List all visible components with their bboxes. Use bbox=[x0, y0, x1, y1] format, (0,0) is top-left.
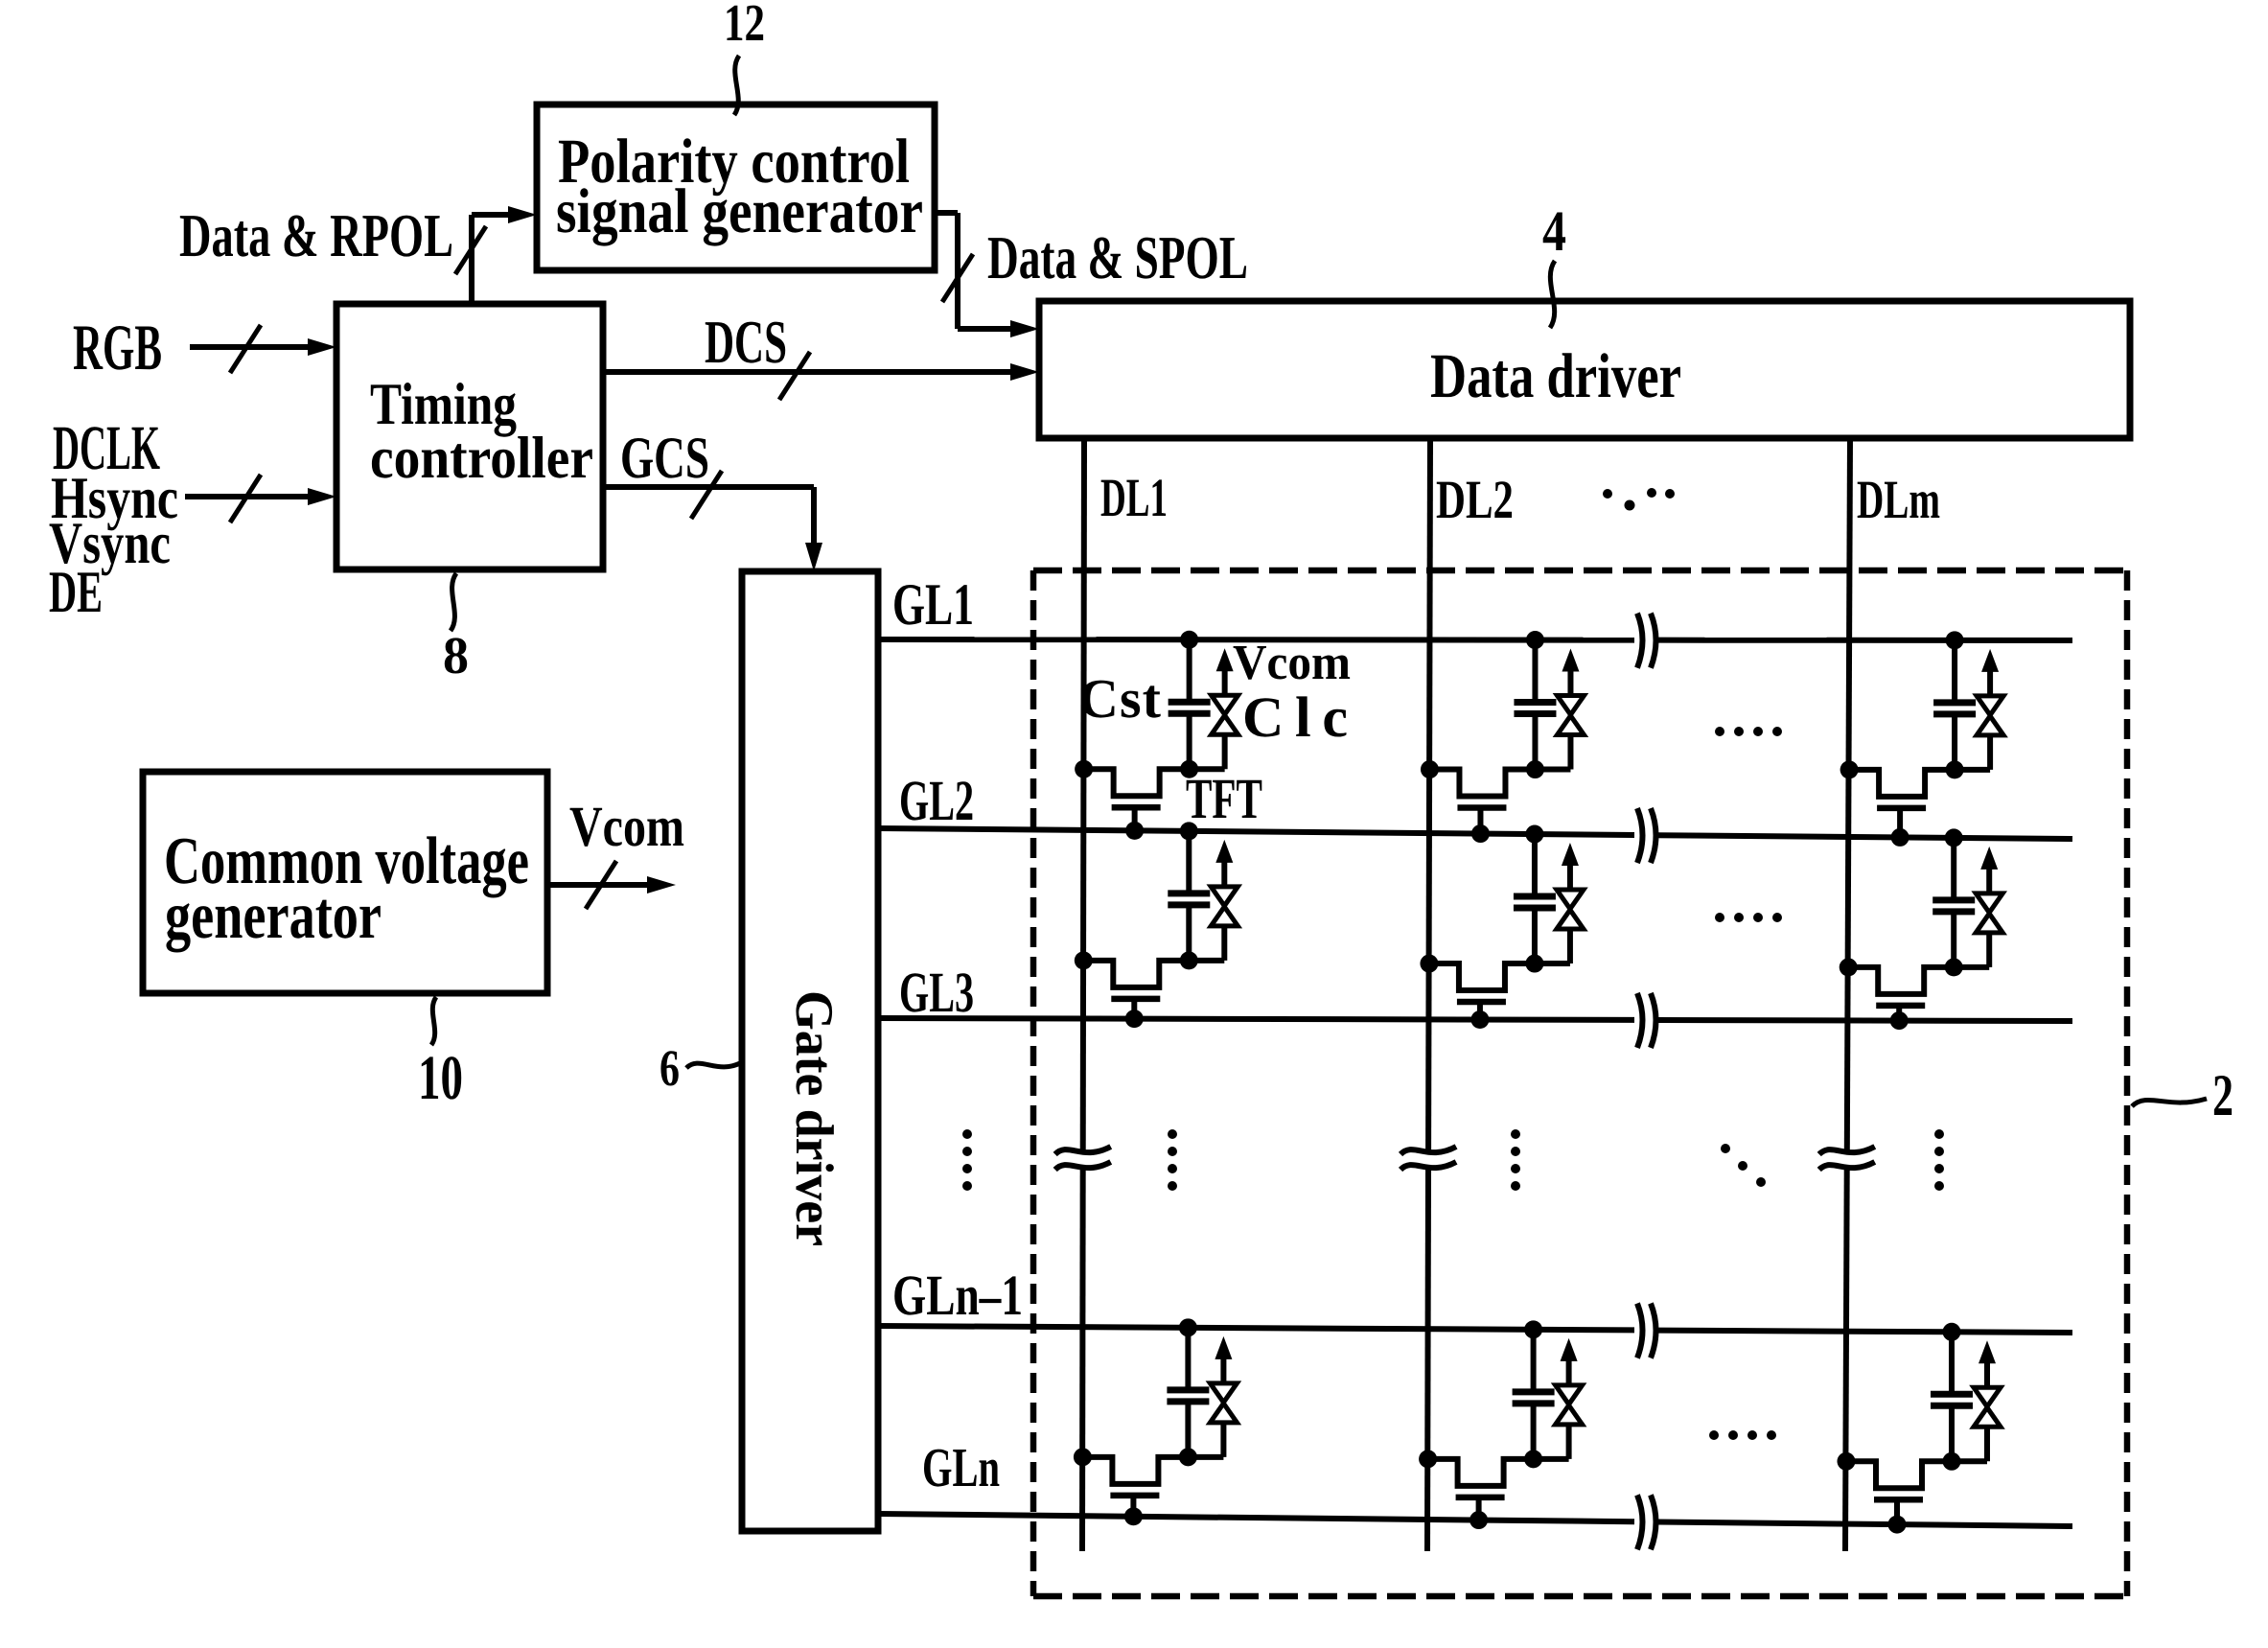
TFT gate lead RnC3 bbox=[1894, 1499, 1900, 1524]
node: Cst top on GLn1 bbox=[1942, 1323, 1960, 1341]
TFT gate bar R2C3 bbox=[1876, 1003, 1925, 1010]
node: TFT gate on GL2 bbox=[1891, 828, 1909, 847]
TFT gate lead R1C1 bbox=[1132, 807, 1138, 830]
node: TFT gate on GLn bbox=[1124, 1507, 1143, 1525]
node: TFT source on DL1 bbox=[1075, 760, 1093, 778]
wire: gate line GLn1 bbox=[878, 1326, 1634, 1330]
dashed LCD panel box (2) bbox=[1033, 568, 2127, 574]
Vcom arrow RnC2 bbox=[1561, 1338, 1578, 1361]
wire: data line DLm bbox=[1847, 438, 1850, 1149]
capacitor Clc (LC) RnC3 bbox=[1984, 1427, 1990, 1461]
TFT gate lead R1C3 bbox=[1897, 808, 1903, 838]
capacitor Cst plates R1C1 bbox=[1169, 699, 1211, 706]
svg-text:Vcom: Vcom bbox=[569, 795, 684, 858]
Vcom arrow R1C2 bbox=[1562, 649, 1579, 672]
wire Cst top lead R2C2 bbox=[1532, 834, 1538, 896]
node: Cst top on GL1 bbox=[1180, 631, 1198, 649]
TFT gate lead R2C1 bbox=[1131, 999, 1137, 1019]
svg-text:DE: DE bbox=[49, 560, 103, 625]
wire to Vcom R2C3 bbox=[1986, 868, 1992, 894]
node: Cst top on GL1 bbox=[1946, 631, 1964, 649]
node: TFT source on DL1 bbox=[1074, 1448, 1092, 1466]
svg-text:Clc: Clc bbox=[1242, 685, 1348, 749]
wire: data line DL1 bbox=[1083, 438, 1084, 1149]
capacitor Clc (LC) R1C3 bbox=[1987, 735, 1993, 770]
TFT gate bar RnC1 bbox=[1110, 1493, 1159, 1499]
Vcom arrow RnC1 bbox=[1215, 1336, 1232, 1359]
svg-text:12: 12 bbox=[724, 0, 765, 52]
wire to Vcom R2C1 bbox=[1221, 861, 1227, 887]
bus slash GCS bbox=[691, 471, 722, 519]
svg-text:RGB: RGB bbox=[73, 311, 162, 383]
TFT gate bar RnC2 bbox=[1456, 1495, 1505, 1501]
node: Cst top on GL2 bbox=[1945, 828, 1963, 847]
capacitor Cst plates RnC1 bbox=[1167, 1386, 1209, 1393]
Vcom arrow R1C1 bbox=[1216, 648, 1234, 671]
break mark on GL2 bbox=[1637, 808, 1643, 863]
ellipsis dots rown bbox=[1709, 1430, 1776, 1440]
Vcom arrow RnC3 bbox=[1979, 1340, 1996, 1363]
vertical ellipsis DLm bbox=[1934, 1129, 1944, 1191]
leader 4 bbox=[1550, 261, 1555, 328]
capacitor Clc (LC) RnC2 bbox=[1566, 1425, 1572, 1459]
node: pixel electrode RnC1 bbox=[1179, 1448, 1197, 1466]
leader 10 bbox=[431, 997, 436, 1045]
wire Cst bottom lead RnC1 bbox=[1185, 1402, 1191, 1457]
svg-text:Vcom: Vcom bbox=[1233, 636, 1351, 690]
transistor TFT RnC3 bbox=[1846, 1461, 1987, 1488]
TFT gate lead R1C2 bbox=[1477, 808, 1483, 834]
wire Cst top lead R2C3 bbox=[1951, 838, 1956, 900]
break mark on GL1 bbox=[1637, 614, 1643, 668]
wire: Data & RPOL bbox=[469, 215, 474, 304]
node: Cst top on GL2 bbox=[1180, 822, 1198, 840]
svg-text:2: 2 bbox=[2212, 1063, 2233, 1128]
node: Cst top on GLn1 bbox=[1179, 1318, 1197, 1336]
capacitor Clc (LC) R1C1 bbox=[1222, 734, 1228, 769]
TFT gate bar R2C1 bbox=[1111, 996, 1160, 1003]
svg-text:Data & RPOL: Data & RPOL bbox=[179, 201, 453, 269]
wire Cst top lead R2C1 bbox=[1186, 831, 1192, 894]
Vcom arrow R2C1 bbox=[1215, 840, 1233, 863]
TFT gate bar RnC3 bbox=[1874, 1497, 1923, 1503]
break mark on GL3 bbox=[1637, 993, 1643, 1048]
capacitor Clc (LC) R2C1 bbox=[1221, 926, 1227, 961]
wire: RGB input bbox=[190, 344, 312, 350]
leader 12 bbox=[734, 56, 739, 115]
transistor TFT RnC2 bbox=[1428, 1459, 1569, 1486]
capacitor Clc (LC) R2C3 bbox=[1986, 933, 1992, 967]
wire Cst bottom lead R2C2 bbox=[1532, 908, 1538, 963]
capacitor Clc (LC) R2C2 bbox=[1567, 929, 1573, 963]
wire: gate line GLn bbox=[878, 1514, 1634, 1521]
svg-text:controller: controller bbox=[370, 426, 593, 491]
label: Gate driver (rotated) bbox=[784, 990, 844, 1246]
capacitor Cst plates R2C2 bbox=[1514, 894, 1556, 900]
block: Polarity control signal generator (12) bbox=[537, 104, 935, 270]
wire Cst top lead RnC1 bbox=[1185, 1328, 1191, 1390]
svg-text:DL1: DL1 bbox=[1100, 468, 1168, 528]
node: pixel electrode RnC3 bbox=[1942, 1452, 1960, 1471]
svg-text:8: 8 bbox=[443, 626, 469, 685]
wire: Data & SPOL bbox=[935, 210, 958, 216]
wire to Vcom R2C2 bbox=[1567, 864, 1573, 890]
wire Cst top lead R1C1 bbox=[1187, 639, 1192, 702]
node: pixel electrode R1C1 bbox=[1180, 760, 1198, 778]
capacitor Clc (LC) R1C2 bbox=[1567, 735, 1573, 770]
svg-text:GLn: GLn bbox=[922, 1436, 1000, 1498]
svg-text:4: 4 bbox=[1542, 199, 1566, 263]
wire Cst top lead R1C3 bbox=[1952, 640, 1957, 703]
node: TFT gate on GL2 bbox=[1125, 822, 1144, 840]
svg-text:6: 6 bbox=[660, 1039, 680, 1097]
vertical ellipsis DL1 bbox=[1168, 1129, 1177, 1191]
wire Cst top lead R1C2 bbox=[1532, 640, 1538, 703]
svg-text:Gate driver: Gate driver bbox=[784, 990, 844, 1246]
svg-text:GL3: GL3 bbox=[899, 961, 974, 1024]
node: TFT gate on GLn bbox=[1887, 1516, 1906, 1534]
wire to Vcom RnC2 bbox=[1566, 1359, 1572, 1385]
svg-text:DL2: DL2 bbox=[1436, 470, 1514, 530]
svg-text:GCS: GCS bbox=[620, 426, 709, 491]
node: TFT source on DL1 bbox=[1075, 951, 1093, 969]
ellipsis dots row1 bbox=[1715, 727, 1782, 736]
wire Cst bottom lead R1C1 bbox=[1187, 713, 1192, 769]
node: TFT source on DL2 bbox=[1420, 955, 1438, 973]
transistor TFT R1C3 bbox=[1849, 770, 1990, 797]
node: TFT gate on GL2 bbox=[1471, 824, 1490, 843]
wire Cst bottom lead R1C2 bbox=[1532, 714, 1538, 770]
node: pixel electrode RnC2 bbox=[1524, 1450, 1542, 1468]
wire: gate line GL2 bbox=[878, 828, 1634, 835]
wire Cst bottom lead R2C1 bbox=[1186, 905, 1192, 961]
svg-text:DLm: DLm bbox=[1857, 470, 1940, 530]
block: Common voltage generator (10) bbox=[143, 772, 547, 993]
bus slash RPOL bbox=[455, 226, 486, 274]
block: Gate driver (6) bbox=[742, 571, 878, 1531]
TFT gate bar R1C3 bbox=[1877, 805, 1926, 812]
node: TFT source on DL2 bbox=[1421, 760, 1439, 778]
capacitor Cst plates R1C2 bbox=[1514, 699, 1556, 706]
transistor TFT R1C1 bbox=[1084, 769, 1225, 796]
node: pixel electrode R1C2 bbox=[1526, 760, 1544, 778]
break mark on DL2 bbox=[1400, 1147, 1456, 1154]
node: Cst top on GLn1 bbox=[1524, 1320, 1542, 1338]
transistor TFT RnC1 bbox=[1082, 1457, 1223, 1484]
node: TFT gate on GLn bbox=[1470, 1511, 1488, 1529]
node: pixel electrode R2C1 bbox=[1180, 951, 1198, 969]
leader 2 bbox=[2132, 1099, 2207, 1106]
svg-text:signal generator: signal generator bbox=[556, 176, 923, 246]
wire to Vcom R1C1 bbox=[1222, 669, 1228, 695]
bus slash SPOL bbox=[942, 254, 973, 302]
wire Cst bottom lead RnC2 bbox=[1531, 1404, 1537, 1459]
wire: DCS bbox=[603, 369, 1014, 375]
node: TFT source on DLm bbox=[1837, 1452, 1855, 1471]
wire: gate line GL1 bbox=[878, 637, 1634, 643]
transistor TFT R1C2 bbox=[1429, 770, 1570, 797]
ellipsis dots row2 bbox=[1715, 913, 1782, 922]
svg-text:generator: generator bbox=[165, 879, 382, 953]
wire Cst top lead RnC2 bbox=[1531, 1330, 1537, 1392]
svg-text:DCS: DCS bbox=[705, 308, 787, 376]
Vcom arrow R1C3 bbox=[1981, 649, 1999, 672]
node: pixel electrode R2C3 bbox=[1945, 958, 1963, 976]
svg-text:TFT: TFT bbox=[1186, 767, 1262, 830]
node: TFT gate on GL3 bbox=[1470, 1010, 1489, 1029]
capacitor Cst plates RnC3 bbox=[1931, 1391, 1973, 1398]
wire to Vcom RnC1 bbox=[1220, 1358, 1226, 1383]
transistor TFT R2C3 bbox=[1848, 967, 1989, 994]
diagonal ellipsis between DL2 and DLm bbox=[1721, 1144, 1766, 1187]
TFT gate lead R2C3 bbox=[1896, 1006, 1902, 1021]
leader 6 bbox=[686, 1062, 742, 1068]
wire Cst bottom lead R2C3 bbox=[1951, 912, 1956, 967]
TFT gate bar R2C2 bbox=[1457, 999, 1506, 1006]
bus slash Vcom bbox=[586, 861, 616, 909]
capacitor Clc (LC) RnC1 bbox=[1220, 1423, 1226, 1457]
TFT gate lead RnC2 bbox=[1476, 1497, 1482, 1520]
svg-text:GLn–1: GLn–1 bbox=[892, 1264, 1023, 1327]
wire to Vcom R1C3 bbox=[1987, 670, 1993, 696]
svg-text:GL2: GL2 bbox=[899, 769, 974, 832]
wire: GCS bbox=[603, 484, 814, 490]
block: Data driver (4) bbox=[1039, 301, 2130, 438]
wire Cst bottom lead R1C3 bbox=[1952, 714, 1957, 770]
node: TFT source on DLm bbox=[1840, 958, 1858, 976]
svg-text:GL1: GL1 bbox=[892, 572, 974, 638]
Vcom arrow R2C2 bbox=[1562, 843, 1579, 866]
TFT gate bar R1C2 bbox=[1457, 804, 1506, 811]
svg-text:10: 10 bbox=[418, 1043, 463, 1113]
wire: Vcom output bbox=[547, 882, 651, 888]
wire to Vcom R1C2 bbox=[1567, 670, 1573, 696]
bus slash DCS bbox=[779, 352, 810, 400]
node: pixel electrode R2C2 bbox=[1525, 955, 1543, 973]
capacitor Cst plates RnC2 bbox=[1513, 1388, 1555, 1395]
wire to Vcom RnC3 bbox=[1984, 1361, 1990, 1387]
block: Timing controller (8) bbox=[336, 304, 603, 569]
svg-text:Data & SPOL: Data & SPOL bbox=[987, 223, 1248, 291]
node: Cst top on GL1 bbox=[1526, 631, 1544, 649]
node: TFT gate on GL3 bbox=[1890, 1011, 1909, 1030]
wire: gate line GL3 bbox=[878, 1018, 1634, 1020]
vertical ellipsis DL2 bbox=[1511, 1129, 1520, 1191]
capacitor Cst plates R2C1 bbox=[1168, 890, 1210, 896]
ellipsis dots near DL labels bbox=[1603, 488, 1675, 511]
transistor TFT R2C1 bbox=[1083, 961, 1224, 987]
wire: data line DL2 bbox=[1428, 438, 1430, 1149]
vertical ellipsis left column bbox=[962, 1129, 972, 1191]
node: TFT source on DL2 bbox=[1419, 1450, 1437, 1468]
break mark on DLm bbox=[1819, 1147, 1875, 1154]
transistor TFT R2C2 bbox=[1429, 963, 1570, 990]
svg-text:Cst: Cst bbox=[1078, 667, 1162, 730]
leader 8 bbox=[451, 573, 456, 631]
capacitor Cst plates R2C3 bbox=[1932, 896, 1975, 903]
break mark on GLn bbox=[1637, 1495, 1643, 1549]
wire Cst top lead RnC3 bbox=[1949, 1332, 1955, 1394]
bus slash sync bbox=[230, 475, 261, 522]
svg-text:Data driver: Data driver bbox=[1430, 341, 1681, 411]
node: TFT source on DLm bbox=[1840, 760, 1859, 778]
TFT gate lead R2C2 bbox=[1477, 1002, 1483, 1019]
TFT gate bar R1C1 bbox=[1112, 804, 1161, 811]
capacitor Cst plates R1C3 bbox=[1933, 699, 1976, 706]
TFT gate lead RnC1 bbox=[1130, 1496, 1136, 1517]
node: Cst top on GL2 bbox=[1525, 825, 1543, 844]
node: TFT gate on GL3 bbox=[1125, 1010, 1144, 1028]
Vcom arrow R2C3 bbox=[1980, 847, 1998, 870]
wire Cst bottom lead RnC3 bbox=[1949, 1405, 1955, 1461]
wire: DCLK/Hsync/Vsync/DE input bbox=[185, 494, 312, 499]
break mark on GLn1 bbox=[1637, 1304, 1643, 1358]
bus slash RGB bbox=[230, 325, 261, 373]
node: pixel electrode R1C3 bbox=[1946, 760, 1964, 778]
break mark on DL1 bbox=[1055, 1147, 1111, 1154]
